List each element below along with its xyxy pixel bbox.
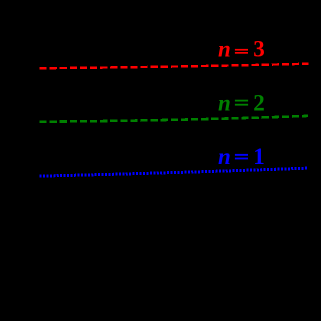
curve n=2 (green dashed line) xyxy=(40,116,309,122)
equals sign of label n=2 xyxy=(235,100,248,102)
equals sign of label n=3 xyxy=(235,49,248,51)
curve n=3 (red dashed line) xyxy=(40,64,309,68)
curve n=1 (blue dotted line) xyxy=(40,168,309,176)
equals sign of label n=1 xyxy=(235,154,248,156)
